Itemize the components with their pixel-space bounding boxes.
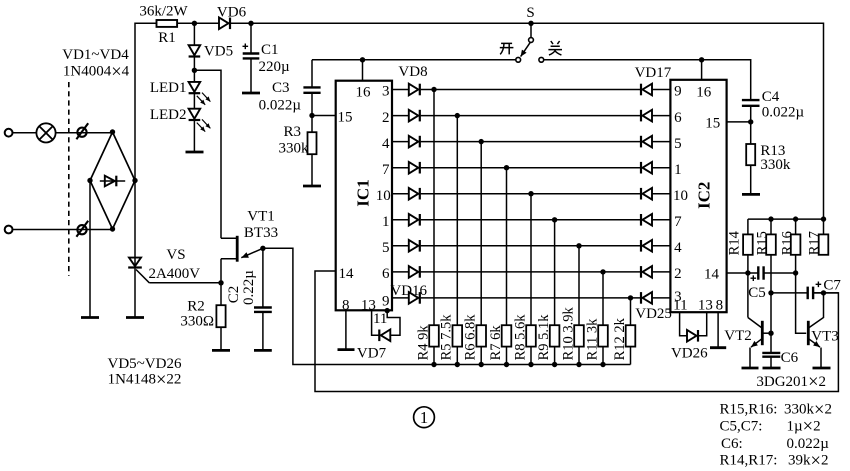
wire R13 to ground — [750, 165, 752, 194]
node IC1 pin16 tap — [360, 57, 365, 62]
capacitor C5 1u (polarized) — [757, 266, 759, 279]
svg-text:11: 11 — [673, 298, 687, 314]
svg-text:0.22µ: 0.22µ — [241, 270, 257, 305]
svg-text:VT2: VT2 — [724, 328, 752, 344]
wire IC1 pin 11 down to VD7 — [372, 310, 380, 335]
node R16 / C5 right — [793, 270, 798, 275]
svg-text:R16: R16 — [780, 231, 796, 255]
wire node down to R2 — [220, 283, 222, 305]
transistor VT2 — [761, 321, 764, 345]
svg-text:VS: VS — [166, 247, 185, 263]
resistor R11 — [598, 325, 608, 346]
wire J2 to bridge bottom — [13, 229, 113, 231]
wire node to LED1 — [193, 70, 195, 82]
diode VD23 (row 7 right) — [640, 240, 642, 252]
bridge inner diode symbol — [100, 180, 125, 182]
node VT2 base / R15 / C6 — [768, 331, 773, 336]
node IC1 pin 9 / VD7 junction — [385, 308, 390, 313]
svg-text:C5,C7:: C5,C7: — [720, 418, 763, 434]
ground (IC1 pin 8) — [338, 348, 355, 351]
svg-text:R12 2k: R12 2k — [612, 317, 628, 360]
terminal J2 (lower input) — [5, 226, 13, 234]
wire IC2 pin 16 drop — [701, 60, 703, 80]
svg-text:1: 1 — [382, 214, 390, 230]
diode VD7 — [378, 330, 380, 342]
resistor R7 — [502, 325, 512, 346]
svg-text:15: 15 — [705, 115, 720, 131]
diode VD15 (row 8 left) — [409, 266, 419, 278]
wire matrix row 6 (IC1 pin 1 to IC2) — [392, 219, 409, 221]
resistor R1 — [157, 20, 178, 27]
diode VD26 — [687, 330, 697, 342]
svg-text:10: 10 — [673, 188, 688, 204]
ground (VT2 emitter) — [742, 367, 759, 370]
wire row 5 tap down to R8 — [530, 194, 532, 365]
label 开 (on) — [500, 43, 514, 54]
node VT1 emitter / C2 — [260, 246, 265, 251]
svg-text:9: 9 — [382, 294, 390, 310]
lamp HL — [36, 123, 55, 142]
ground (VS) — [126, 316, 144, 319]
node row 7 tap to R10 — [576, 243, 581, 248]
switch S arm with arrow — [521, 42, 531, 56]
wire matrix row 9 (IC1 pin 9 to IC2) — [392, 297, 409, 299]
svg-text:R10 3.9k: R10 3.9k — [560, 306, 576, 360]
svg-text:VT1: VT1 — [247, 208, 275, 224]
wire R2 to ground — [220, 327, 222, 350]
wire matrix row 8 (IC1 pin 6 to IC2) — [392, 271, 409, 273]
node R15 top — [768, 216, 773, 221]
wire matrix row 7 (IC1 pin 5 to IC2) — [392, 245, 409, 247]
diode VD13 (row 6 left) — [409, 214, 419, 226]
wire VD5 anode — [193, 23, 195, 45]
svg-text:0.022µ: 0.022µ — [259, 98, 302, 114]
svg-text:C6:: C6: — [721, 436, 743, 452]
node row 5 tap to R8 — [528, 191, 533, 196]
wire R14-R17 top line — [748, 218, 824, 220]
diode VD22 (row 6 right) — [640, 214, 642, 226]
thyristor VS 2A400V — [134, 258, 136, 269]
node VS gate / R2 / VT1 base1 — [218, 280, 223, 285]
svg-text:1: 1 — [674, 162, 682, 178]
node rail R9 bottom — [552, 362, 557, 367]
wire row 6 tap down to R9 — [554, 220, 556, 365]
wire switch stub from top rail — [530, 23, 532, 37]
svg-text:R9 5.1k: R9 5.1k — [536, 314, 552, 361]
diode VD17 (row 1 right) — [640, 84, 642, 96]
svg-text:VD25: VD25 — [635, 306, 672, 322]
wire row 7 tap down to R10 — [578, 246, 580, 365]
node IC2 pin16 tap — [699, 57, 704, 62]
svg-text:6: 6 — [382, 266, 390, 282]
svg-text:4: 4 — [382, 136, 390, 152]
resistor R3 — [308, 132, 317, 154]
wire IC2 pin 8 to ground — [717, 312, 719, 348]
diode VD21 (row 5 right) — [640, 188, 642, 200]
dashed separation line — [68, 82, 70, 276]
wire IC1 pin 14 long loop to VT3 collector node — [315, 271, 838, 392]
diode VD25 (row 9 right) — [640, 292, 642, 304]
resistor R12 — [626, 325, 636, 346]
ground (VT3 emitter) — [813, 367, 831, 370]
svg-text:VD26: VD26 — [671, 346, 708, 362]
svg-text:330Ω: 330Ω — [180, 314, 214, 330]
diode VD9 (row 2 left) — [409, 110, 419, 122]
resistor R15 — [770, 219, 772, 234]
node R3/C3/IC1 pin15 — [309, 113, 314, 118]
wire C3 to R3/pin15 node — [311, 93, 313, 132]
wire C6 to ground — [770, 357, 772, 368]
LED LED1 — [189, 82, 201, 92]
svg-text:R5 7.5k: R5 7.5k — [439, 314, 455, 361]
wire row 4 tap down to R7 — [506, 168, 508, 365]
capacitor C4 0.022u — [742, 99, 760, 101]
wire node to IC1 pin 15 — [312, 115, 336, 117]
svg-text:VT3: VT3 — [811, 328, 839, 344]
resistor R2 — [216, 305, 225, 327]
svg-text:VD5~VD26: VD5~VD26 — [108, 356, 182, 372]
wire row 8 tap down to R11 — [602, 272, 604, 365]
node rail R7 bottom — [504, 362, 509, 367]
svg-text:5: 5 — [382, 240, 390, 256]
diode VD6 — [219, 18, 229, 30]
wire bridge right vertex down to VS — [134, 181, 136, 258]
svg-text:7: 7 — [674, 214, 682, 230]
svg-text:R14,R17:: R14,R17: — [720, 453, 778, 469]
node rail R4 bottom — [431, 362, 436, 367]
svg-text:R4 9k: R4 9k — [415, 325, 431, 361]
resistor R17 — [823, 219, 825, 234]
wire VD5 cathode to node — [193, 56, 195, 70]
svg-text:VD8: VD8 — [398, 64, 427, 80]
svg-text:2A400V: 2A400V — [148, 266, 200, 282]
wire top rail VD6 to right corner and down to R17 line — [231, 23, 824, 219]
svg-text:C7: C7 — [823, 278, 841, 294]
node bridge left vertex — [87, 178, 92, 183]
node row 8 tap to R11 — [600, 269, 605, 274]
node switch S tap — [528, 21, 533, 26]
wire matrix row 1 (IC1 pin 3 to IC2) — [392, 89, 409, 91]
wire C5 to R16 node — [764, 272, 796, 274]
switch S pivot contact — [529, 38, 534, 43]
svg-text:0.022µ: 0.022µ — [787, 436, 830, 452]
node row 3 tap to R6 — [479, 139, 484, 144]
svg-text:VD1~VD4: VD1~VD4 — [62, 47, 129, 63]
svg-text:1µ×2: 1µ×2 — [787, 417, 821, 437]
node VD5/LED1/VT1 junction — [192, 68, 197, 73]
svg-text:C5: C5 — [748, 285, 766, 301]
svg-text:IC1: IC1 — [354, 179, 373, 206]
svg-text:R14: R14 — [727, 230, 743, 255]
node bridge bottom vertex — [110, 226, 115, 231]
wire VS cathode to ground — [134, 269, 136, 317]
node IC2 pin15 / C4 / R13 — [748, 119, 753, 124]
wire VT3 emitter to ground — [820, 348, 822, 369]
node R17 top / top-rail corner — [821, 216, 826, 221]
resistor R5 — [453, 325, 463, 346]
label 关 (off) — [548, 41, 562, 55]
ground (R13) — [742, 193, 760, 196]
wire VD26 to IC2 pin 13 — [699, 312, 707, 336]
svg-text:1: 1 — [420, 408, 429, 427]
wire IC2 pin 14 to C5 — [727, 272, 759, 274]
bridge rectifier VD1~VD4 diamond — [90, 132, 135, 229]
wire IC1 pin 16 drop — [362, 60, 364, 81]
svg-text:VD5: VD5 — [204, 44, 233, 60]
svg-text:C2: C2 — [226, 286, 242, 304]
capacitor C3 0.022u — [311, 60, 313, 88]
svg-text:3: 3 — [382, 84, 390, 100]
svg-text:10: 10 — [376, 188, 391, 204]
capacitor C2 0.22u — [254, 306, 272, 308]
diode VD19 (row 3 right) — [640, 136, 642, 148]
diode VD12 (row 5 left) — [409, 188, 419, 200]
wire C2 to ground — [262, 312, 264, 351]
svg-text:11: 11 — [373, 311, 387, 327]
node R16 top — [793, 216, 798, 221]
IC IC2 body — [670, 80, 726, 312]
node VD5 tap — [192, 21, 197, 26]
svg-text:220µ: 220µ — [259, 59, 291, 75]
diode VD11 (row 4 left) — [409, 162, 419, 174]
svg-text:R11 3k: R11 3k — [584, 318, 600, 361]
wire C1 bottom to ground — [250, 58, 252, 93]
wire LED2 to ground — [193, 120, 195, 152]
node rail R10 bottom — [576, 362, 581, 367]
svg-text:3DG201×2: 3DG201×2 — [756, 373, 826, 393]
svg-text:9: 9 — [674, 84, 682, 100]
svg-text:VD16: VD16 — [390, 283, 427, 299]
wire lamp to bridge top — [56, 132, 113, 134]
LED LED2 — [189, 109, 201, 119]
resistor R4 — [429, 325, 439, 346]
svg-text:0.022µ: 0.022µ — [762, 105, 805, 121]
node bridge top vertex — [110, 129, 115, 134]
node row 1 tap to R4 — [431, 87, 436, 92]
node R15 / C7 wire — [768, 290, 773, 295]
wire R1 to VD6 — [177, 22, 219, 24]
svg-text:C1: C1 — [261, 42, 279, 58]
svg-text:6: 6 — [674, 110, 682, 126]
svg-text:LED2: LED2 — [150, 107, 187, 123]
wire row 2 tap down to R5 — [456, 116, 458, 365]
svg-text:VD7: VD7 — [357, 346, 387, 362]
wire bridge right vertex up to R1 — [135, 23, 157, 180]
svg-text:IC2: IC2 — [695, 182, 714, 209]
svg-text:R3: R3 — [283, 124, 301, 140]
node row 2 tap to R5 — [455, 113, 460, 118]
svg-text:13: 13 — [698, 298, 713, 314]
diode VD5 — [189, 45, 201, 55]
IC IC1 body — [336, 81, 392, 311]
wire J1 to lamp — [13, 132, 37, 134]
ground (C2) — [254, 349, 272, 352]
wire supply rail right segment (switch to C4) — [544, 60, 751, 100]
svg-text:330k: 330k — [760, 157, 791, 173]
wire VT2 emitter to ground — [749, 348, 751, 369]
node row 4 tap to R7 — [504, 165, 509, 170]
wire LED1 to LED2 — [193, 93, 195, 109]
wire VD7 anode loop to IC1 pin 9 node — [387, 312, 400, 336]
ground (R2) — [212, 349, 230, 352]
svg-text:VD6: VD6 — [217, 5, 247, 21]
resistor R10 — [574, 325, 584, 346]
svg-text:2: 2 — [382, 110, 390, 126]
ground (R3) — [303, 185, 321, 188]
diode VD20 (row 4 right) — [640, 162, 642, 174]
svg-text:R6 6.8k: R6 6.8k — [463, 314, 479, 361]
node row 9 tap to R12 — [628, 295, 633, 300]
wire node to VT1 base-2 (down right side) — [194, 70, 221, 238]
wire bridge left vertex to ground — [89, 181, 91, 318]
wire IC1 pin 8 to ground — [345, 310, 347, 349]
resistor R6 — [476, 325, 486, 346]
svg-text:14: 14 — [704, 266, 720, 282]
node rail R8 bottom — [528, 362, 533, 367]
wire matrix row 2 (IC1 pin 2 to IC2) — [392, 115, 409, 117]
wire IC2 pin 15 — [727, 121, 751, 123]
resistor R16 — [795, 219, 797, 234]
diode VD24 (row 8 right) — [640, 266, 642, 278]
transistor VT1 BT33 — [236, 236, 239, 262]
svg-text:7: 7 — [382, 162, 390, 178]
figure number 1 (circled) — [414, 407, 435, 428]
svg-text:8: 8 — [716, 298, 724, 314]
wire matrix row 4 (IC1 pin 7 to IC2) — [392, 167, 409, 169]
svg-text:C4: C4 — [762, 89, 780, 105]
ground (LED chain) — [186, 151, 204, 154]
wire R3 to ground — [311, 154, 313, 186]
wire R15 bottom through C7 node — [770, 255, 772, 353]
svg-text:1N4148×22: 1N4148×22 — [108, 370, 182, 390]
svg-text:14: 14 — [339, 266, 355, 282]
svg-text:R8 5.6k: R8 5.6k — [512, 314, 528, 361]
wire C7 line from R15 node — [771, 292, 808, 294]
wire supply rail left segment (C3 top to switch contact) — [312, 59, 516, 61]
resistor R14 — [747, 219, 749, 234]
wire C1 top — [250, 23, 252, 53]
wire row 9 tap down to R12 — [630, 298, 632, 365]
transistor VT3 — [807, 321, 810, 345]
terminal J1 (upper input) — [5, 129, 13, 137]
capacitor C1 220u (polarized) — [243, 52, 260, 54]
svg-text:R7 6k: R7 6k — [488, 325, 504, 361]
node row 6 tap to R9 — [552, 217, 557, 222]
svg-text:R15,R16:: R15,R16: — [720, 402, 778, 418]
svg-text:C6: C6 — [781, 350, 799, 366]
switch S contact 关 (off) — [539, 57, 544, 62]
connector X1 (upper) — [77, 128, 86, 137]
node R17 / C7 / VT3 collector — [821, 290, 826, 295]
wire VS gate to R2/VT1 node — [149, 282, 221, 284]
node rail R6 bottom — [479, 362, 484, 367]
resistor R8 — [526, 325, 536, 346]
node rail R5 bottom — [455, 362, 460, 367]
node C1 tap — [248, 21, 253, 26]
diode VD10 (row 3 left) — [409, 136, 419, 148]
ground (IC2 pin 8) — [710, 346, 726, 349]
svg-text:R15: R15 — [755, 231, 771, 255]
node rail R11 bottom — [600, 362, 605, 367]
wire matrix row 3 (IC1 pin 4 to IC2) — [392, 141, 409, 143]
ground (C6) — [763, 367, 781, 370]
svg-text:15: 15 — [338, 110, 353, 126]
svg-text:C3: C3 — [272, 80, 290, 96]
diode VD8 (row 1 left) — [409, 84, 419, 96]
connector X2 (lower) — [77, 225, 86, 234]
wire R14 bottom to VT2 collector — [747, 255, 749, 318]
switch S contact 开 (on) — [516, 57, 521, 62]
capacitor C7 1u (polarized) — [807, 287, 809, 300]
wire VT2 base to R15 node — [762, 332, 771, 334]
wire IC2 pin 11 to VD26 — [680, 312, 687, 336]
resistor R13 — [746, 144, 755, 165]
capacitor C6 0.022u — [762, 352, 780, 354]
svg-text:36k/2W: 36k/2W — [139, 3, 188, 19]
svg-text:R17: R17 — [807, 231, 823, 255]
wire row 1 tap down to R4 — [433, 90, 435, 365]
svg-text:BT33: BT33 — [244, 225, 278, 241]
ground (C1) — [242, 92, 260, 95]
svg-text:5: 5 — [674, 136, 682, 152]
wire R16 bottom to VT3 base — [796, 255, 807, 333]
ground (bridge left) — [81, 316, 99, 319]
svg-text:R2: R2 — [187, 298, 205, 314]
svg-text:S: S — [526, 5, 534, 21]
svg-text:39k×2: 39k×2 — [788, 452, 828, 471]
svg-text:LED1: LED1 — [150, 80, 187, 96]
diode VD18 (row 2 right) — [640, 110, 642, 122]
diode VD14 (row 7 left) — [409, 240, 419, 252]
resistor R9 — [550, 325, 560, 346]
svg-text:2: 2 — [674, 266, 682, 282]
node R14 / IC2 pin14 / C5 — [745, 270, 750, 275]
wire VT1 emitter down to C2 — [262, 248, 264, 307]
svg-text:330k: 330k — [279, 141, 310, 157]
wire row 3 tap down to R6 — [480, 142, 482, 365]
svg-text:1N4004×4: 1N4004×4 — [63, 62, 130, 82]
svg-text:16: 16 — [356, 85, 372, 101]
svg-text:VD17: VD17 — [635, 65, 672, 81]
svg-text:16: 16 — [696, 85, 712, 101]
wire C7 right to R17/VT3 node — [813, 292, 838, 294]
node bridge right vertex — [132, 178, 137, 183]
svg-text:4: 4 — [674, 240, 682, 256]
wire matrix row 5 (IC1 pin 10 to IC2) — [392, 193, 409, 195]
diode VD16 (row 9 left) — [409, 292, 419, 304]
svg-text:R1: R1 — [158, 30, 176, 46]
wire C4 to R13 and pin 15 node — [750, 106, 752, 144]
wire resistor-bank bottom rail from VT1 emitter — [263, 248, 631, 364]
